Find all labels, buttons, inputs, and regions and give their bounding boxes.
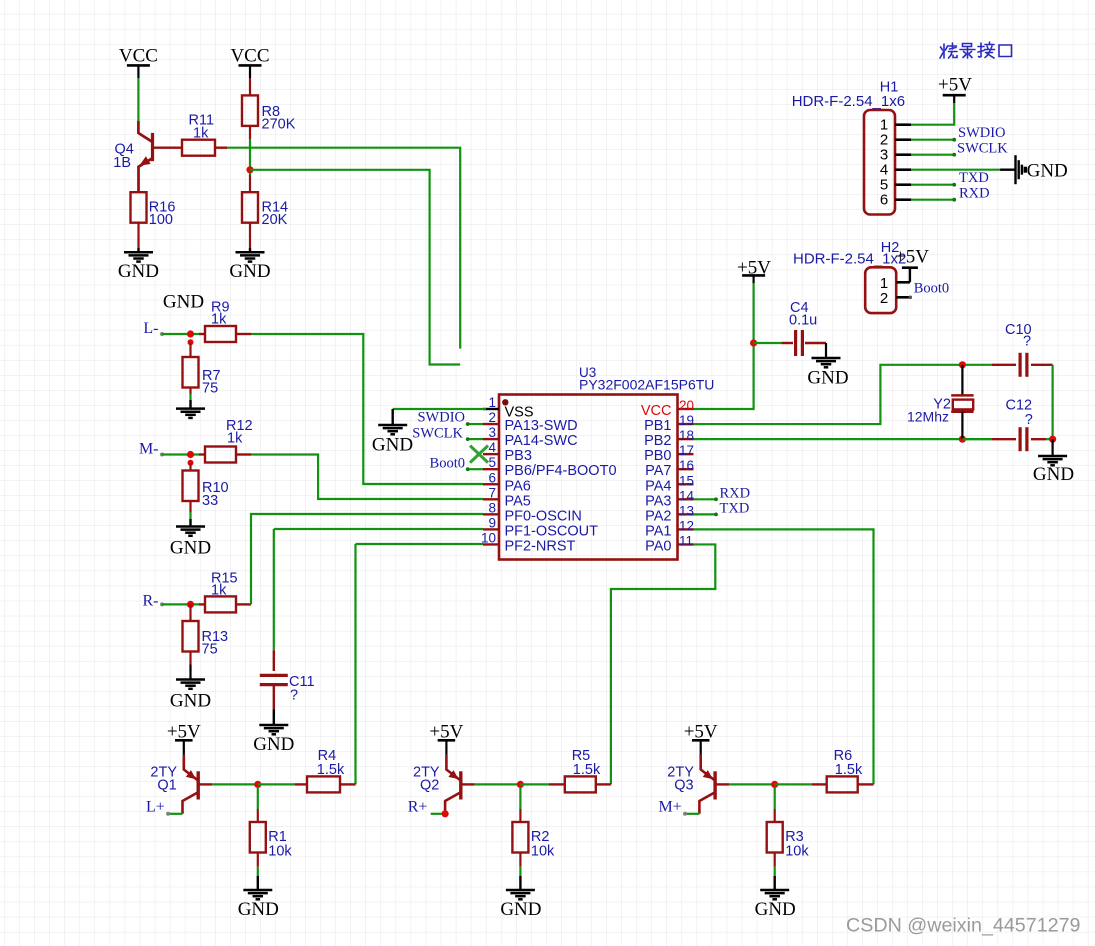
svg-text:Q2: Q2 — [420, 778, 439, 794]
svg-text:3: 3 — [488, 425, 496, 440]
svg-text:PA4: PA4 — [645, 478, 671, 494]
svg-text:PB0: PB0 — [644, 448, 671, 464]
svg-text:CSDN @weixin_44571279: CSDN @weixin_44571279 — [846, 915, 1081, 937]
svg-text:VCC: VCC — [641, 403, 672, 419]
svg-text:PF2-NRST: PF2-NRST — [505, 538, 576, 554]
svg-text:GND: GND — [500, 899, 541, 920]
svg-text:PB3: PB3 — [505, 448, 532, 464]
svg-text:14: 14 — [679, 488, 695, 503]
svg-text:R+: R+ — [408, 799, 428, 816]
svg-text:PA14-SWC: PA14-SWC — [505, 433, 578, 449]
svg-text:GND: GND — [229, 261, 270, 282]
svg-text:+5V: +5V — [938, 75, 972, 96]
svg-text:RXD: RXD — [959, 186, 990, 202]
svg-text:M+: M+ — [658, 799, 681, 816]
svg-text:17: 17 — [679, 443, 694, 458]
svg-text:GND: GND — [807, 367, 848, 388]
svg-text:PF1-OSCOUT: PF1-OSCOUT — [505, 523, 599, 539]
svg-text:PA5: PA5 — [505, 493, 531, 509]
svg-text:PA13-SWD: PA13-SWD — [505, 418, 578, 434]
svg-text:1B: 1B — [113, 155, 131, 171]
svg-text:SWDIO: SWDIO — [958, 125, 1006, 141]
svg-text:GND: GND — [755, 899, 796, 920]
svg-text:Q3: Q3 — [674, 778, 693, 794]
svg-text:10k: 10k — [531, 844, 555, 860]
svg-text:Boot0: Boot0 — [430, 456, 465, 472]
svg-text:20K: 20K — [262, 212, 288, 228]
svg-text:9: 9 — [488, 515, 496, 530]
svg-text:1k: 1k — [193, 126, 209, 142]
svg-text:1k: 1k — [211, 312, 227, 328]
svg-text:18: 18 — [679, 428, 694, 443]
svg-text:10k: 10k — [268, 844, 292, 860]
svg-text:HDR-F-2.54_1x2: HDR-F-2.54_1x2 — [793, 251, 906, 268]
svg-text:4: 4 — [488, 440, 496, 455]
svg-text:PA7: PA7 — [645, 463, 671, 479]
svg-text:Boot0: Boot0 — [914, 280, 949, 296]
svg-text:?: ? — [1025, 412, 1033, 428]
svg-text:?: ? — [290, 688, 298, 704]
svg-text:PA0: PA0 — [645, 538, 671, 554]
svg-text:1: 1 — [488, 395, 496, 410]
svg-text:75: 75 — [202, 642, 218, 658]
svg-text:33: 33 — [202, 493, 218, 509]
svg-text:GND: GND — [118, 261, 159, 282]
svg-text:PA3: PA3 — [645, 493, 671, 509]
svg-text:PB2: PB2 — [644, 433, 671, 449]
svg-text:TXD: TXD — [959, 170, 989, 186]
svg-text:GND: GND — [238, 899, 279, 920]
svg-text:1.5k: 1.5k — [835, 762, 863, 778]
svg-text:13: 13 — [679, 503, 694, 518]
svg-text:10: 10 — [481, 530, 496, 545]
svg-text:SWCLK: SWCLK — [957, 140, 1008, 156]
svg-text:20: 20 — [679, 398, 694, 413]
svg-text:6: 6 — [880, 192, 888, 209]
svg-text:TXD: TXD — [720, 501, 750, 517]
svg-text:SWDIO: SWDIO — [417, 410, 465, 426]
svg-text:15: 15 — [679, 473, 694, 488]
svg-text:1k: 1k — [227, 431, 243, 447]
svg-text:PY32F002AF15P6TU: PY32F002AF15P6TU — [579, 377, 714, 393]
svg-text:PF0-OSCIN: PF0-OSCIN — [505, 508, 582, 524]
svg-text:10k: 10k — [785, 844, 809, 860]
svg-text:RXD: RXD — [720, 486, 751, 502]
svg-text:1.5k: 1.5k — [573, 762, 601, 778]
svg-text:+5V: +5V — [895, 247, 929, 268]
svg-text:2: 2 — [880, 290, 888, 307]
svg-text:5: 5 — [488, 455, 496, 470]
svg-text:M-: M- — [139, 441, 159, 458]
svg-text:1k: 1k — [211, 583, 227, 599]
svg-text:PB1: PB1 — [644, 418, 671, 434]
svg-text:19: 19 — [679, 413, 694, 428]
svg-text:11: 11 — [679, 533, 693, 548]
svg-text:R-: R- — [143, 593, 159, 610]
svg-text:L-: L- — [143, 320, 158, 337]
svg-text:16: 16 — [679, 458, 694, 473]
svg-text:100: 100 — [149, 212, 173, 228]
svg-text:Q1: Q1 — [157, 778, 176, 794]
svg-text:1.5k: 1.5k — [317, 762, 345, 778]
svg-text:PA2: PA2 — [645, 508, 671, 524]
svg-text:HDR-F-2.54_1x6: HDR-F-2.54_1x6 — [792, 93, 905, 110]
svg-text:GND: GND — [1033, 464, 1074, 485]
svg-text:GND: GND — [253, 734, 294, 755]
svg-text:GND: GND — [170, 538, 211, 559]
svg-text:12: 12 — [679, 518, 694, 533]
svg-text:VCC: VCC — [230, 46, 269, 67]
svg-text:+5V: +5V — [737, 258, 771, 279]
svg-text:PA6: PA6 — [505, 478, 531, 494]
svg-text:270K: 270K — [262, 117, 296, 133]
svg-text:SWCLK: SWCLK — [412, 426, 463, 442]
svg-text:?: ? — [1023, 334, 1031, 350]
svg-text:GND: GND — [170, 691, 211, 712]
svg-text:0.1u: 0.1u — [789, 313, 817, 329]
svg-text:GND: GND — [163, 292, 204, 313]
svg-text:GND: GND — [372, 434, 413, 455]
svg-text:PA1: PA1 — [645, 523, 671, 539]
svg-text:VCC: VCC — [119, 46, 158, 67]
svg-text:GND: GND — [1027, 161, 1068, 182]
svg-text:75: 75 — [202, 381, 218, 397]
svg-text:L+: L+ — [146, 799, 165, 816]
svg-text:PB6/PF4-BOOT0: PB6/PF4-BOOT0 — [505, 463, 617, 479]
svg-text:7: 7 — [488, 485, 496, 500]
svg-text:12Mhz: 12Mhz — [907, 409, 949, 425]
svg-text:6: 6 — [488, 470, 496, 485]
svg-text:2: 2 — [488, 410, 496, 425]
svg-text:8: 8 — [488, 500, 496, 515]
